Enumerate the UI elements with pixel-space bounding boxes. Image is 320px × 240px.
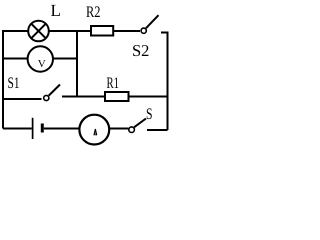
svg-text:R1: R1 <box>107 75 120 92</box>
svg-text:L: L <box>51 1 61 20</box>
wire bottom left <box>3 128 32 130</box>
wire middle junction vertical <box>76 31 78 97</box>
wire voltmeter left <box>3 58 28 60</box>
switch S <box>129 119 146 133</box>
wire S1 to R1 <box>62 96 104 98</box>
wire ammeter to S <box>109 128 129 130</box>
wire row3 left <box>3 98 42 100</box>
switch S1 <box>44 85 60 101</box>
switch S2 <box>141 15 158 33</box>
svg-text:S2: S2 <box>132 41 149 60</box>
resistor R1 <box>105 92 129 101</box>
svg-text:S1: S1 <box>8 75 20 92</box>
wire S right stub <box>147 129 168 131</box>
battery long plate <box>32 118 34 139</box>
wire left vertical <box>2 30 4 129</box>
svg-text:R2: R2 <box>86 4 101 21</box>
svg-text:V: V <box>38 59 46 70</box>
ammeter A <box>79 115 109 145</box>
wire top-left segment <box>3 30 28 32</box>
svg-text:S: S <box>146 106 153 123</box>
wire R1 to right edge <box>129 96 168 98</box>
wire voltmeter right <box>53 58 78 60</box>
resistor R2 <box>91 26 113 36</box>
lamp L <box>28 21 49 42</box>
battery short plate <box>41 124 44 133</box>
wire battery to ammeter <box>44 128 80 130</box>
wire R2 to S2 <box>114 30 140 32</box>
wire right vertical <box>167 32 169 131</box>
wire S2 right stub <box>161 32 168 34</box>
voltmeter V <box>28 46 53 71</box>
wire lamp to R2 <box>49 30 90 32</box>
